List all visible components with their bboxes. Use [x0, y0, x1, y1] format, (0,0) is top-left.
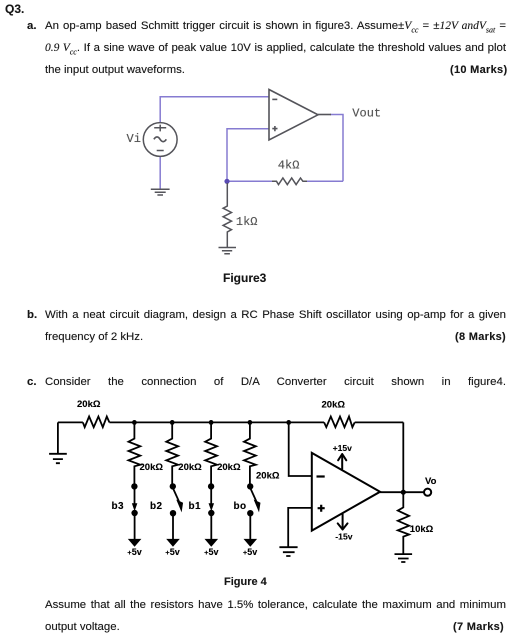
label 1kOhm: [236, 215, 258, 229]
op-amp A1: [312, 453, 380, 531]
node output: [401, 490, 406, 495]
item b line 2: [45, 331, 143, 343]
wire left rail to ground: [57, 422, 59, 453]
label +15v: [333, 443, 353, 453]
label b1: [189, 501, 202, 512]
label Vi: [127, 132, 141, 146]
svg-text:Vo: Vo: [425, 476, 437, 487]
ground under source: [151, 189, 170, 195]
item b line 1: [27, 309, 37, 321]
node dots on rail: [132, 420, 291, 425]
label Vout: [352, 107, 381, 121]
svg-text:20kΩ: 20kΩ: [77, 399, 101, 410]
svg-text:20kΩ: 20kΩ: [217, 462, 241, 473]
supply +15v arrow: [338, 454, 346, 469]
wire rail node to inverting input: [289, 422, 312, 476]
svg-text:+5v: +5v: [127, 547, 141, 557]
svg-text:4kΩ: 4kΩ: [278, 158, 300, 172]
wire op-amp output to Vout corner down: [330, 115, 343, 182]
ground under 1k resistor: [219, 248, 237, 254]
source Vi: [143, 123, 177, 157]
wire feedback down to output node: [402, 422, 404, 492]
resistor 1k: [223, 183, 231, 247]
wire output to terminal: [380, 491, 424, 493]
label bo: [234, 501, 247, 512]
label 10k: [410, 524, 434, 535]
svg-text:b3: b3: [112, 501, 125, 512]
svg-text:bo: bo: [234, 501, 247, 512]
wire feedback row: [227, 180, 343, 182]
resistor 20k vertical b1: [205, 422, 217, 484]
label Vo: [425, 476, 437, 487]
item c: [27, 376, 37, 388]
switch b3 closed: [132, 484, 137, 515]
caption Figure 4: [224, 576, 267, 588]
resistor 20k vertical b0: [244, 422, 256, 484]
supply -15v arrow: [338, 514, 348, 530]
top rail wire: [58, 421, 403, 423]
resistor 20k vertical b3: [129, 422, 141, 484]
label b3: [112, 501, 125, 512]
svg-text:20kΩ: 20kΩ: [140, 462, 164, 473]
svg-text:20kΩ: 20kΩ: [322, 399, 346, 410]
label 4kOhm: [278, 158, 300, 172]
svg-text:Vout: Vout: [352, 107, 381, 121]
svg-text:+5v: +5v: [204, 547, 218, 557]
label 20k b0: [256, 471, 280, 482]
switch b0 open: [248, 484, 260, 515]
label b2: [150, 501, 163, 512]
arrow b3 to +5v: [129, 515, 140, 546]
ground output: [395, 554, 413, 562]
svg-text:10kΩ: 10kΩ: [410, 524, 434, 535]
wire op-amp noninverting input to node: [227, 129, 269, 180]
bottom line 2: [45, 621, 120, 633]
svg-text:Vi: Vi: [127, 132, 141, 146]
switch b1 closed: [209, 484, 214, 515]
label +5v b3: [127, 547, 141, 557]
arrow b2 to +5v: [167, 515, 178, 546]
item a line 1: [27, 20, 37, 32]
svg-text:1kΩ: 1kΩ: [236, 215, 258, 229]
svg-text:20kΩ: 20kΩ: [256, 471, 280, 482]
caption Figure3: [223, 271, 266, 285]
switch b2 open: [171, 484, 183, 515]
arrow b1 to +5v: [206, 515, 217, 546]
svg-text:20kΩ: 20kΩ: [178, 462, 202, 473]
svg-text:b2: b2: [150, 501, 163, 512]
svg-text:b1: b1: [189, 501, 202, 512]
op-amp U1: [269, 90, 331, 141]
node junction: [224, 179, 229, 184]
label +5v b1: [204, 547, 218, 557]
svg-text:+5v: +5v: [243, 547, 257, 557]
svg-text:+15v: +15v: [333, 443, 353, 453]
item a line 2: [45, 42, 506, 58]
figure 4 schematic: [30, 392, 450, 572]
label +5v b0: [243, 547, 257, 557]
terminal Vo: [424, 489, 431, 496]
figure 3 schematic: [100, 80, 420, 295]
label +5v b2: [165, 547, 179, 557]
resistor 20k feedback: [324, 417, 355, 428]
ground left: [49, 454, 67, 463]
label -15v: [335, 531, 352, 541]
ground noninverting: [279, 547, 297, 556]
wire source top to op-amp inverting input: [160, 97, 269, 123]
resistor 4k feedback: [272, 178, 307, 185]
resistor 20k input horizontal: [83, 417, 110, 428]
label 20k b1: [217, 462, 241, 473]
heading Q3.: [5, 3, 24, 15]
wire noninverting input to ground: [288, 508, 312, 547]
svg-text:+5v: +5v: [165, 547, 179, 557]
bottom line 1: [45, 599, 506, 611]
svg-text:-15v: -15v: [335, 531, 352, 541]
item a line 3: [45, 64, 185, 76]
label 20k input: [77, 399, 101, 410]
label 20k b2: [178, 462, 202, 473]
arrow b0 to +5v: [245, 515, 256, 546]
wire source bottom to ground: [159, 156, 161, 189]
resistor 10k: [398, 492, 409, 554]
label 20k feedback: [322, 399, 346, 410]
resistor 20k vertical b2: [166, 422, 178, 484]
label 20k b3: [140, 462, 164, 473]
